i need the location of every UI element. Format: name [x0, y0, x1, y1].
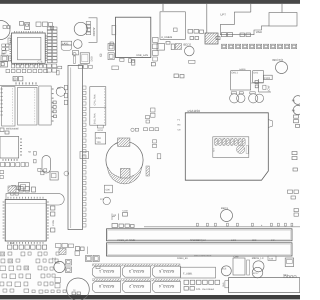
- labels left of socket: [178, 119, 182, 132]
- svg-text:C28: C28: [96, 137, 101, 140]
- resistor row left edge y172: [0, 171, 4, 179]
- bottom board edge bar: [0, 295, 300, 299]
- test points bottom: [72, 289, 80, 295]
- connector DIMM1: [107, 229, 293, 242]
- svg-text:AA009: AA009: [239, 68, 246, 71]
- svg-text:SATA3_4: SATA3_4: [159, 284, 174, 288]
- CPU socket uSA1150: [185, 109, 272, 180]
- resistor right of cap pairs: [263, 85, 266, 89]
- connector F_PANEL wide: [229, 278, 300, 293]
- capacitor BECO: [184, 44, 195, 56]
- svg-text:SYS2: SYS2: [97, 129, 103, 132]
- resistor stack right edge y120: [294, 115, 300, 127]
- hatched connector COM1: [205, 33, 218, 44]
- svg-text:USB_LAN: USB_LAN: [136, 54, 148, 57]
- svg-text:B1D: B1D: [271, 239, 276, 242]
- small caps y243 x55: [56, 244, 80, 256]
- svg-text:M25U6406E: M25U6406E: [6, 128, 19, 131]
- svg-text:uSA1150: uSA1150: [188, 109, 201, 113]
- svg-text:DDR3_B1: DDR3_B1: [177, 257, 188, 260]
- svg-text:SATA3_3: SATA3_3: [129, 269, 144, 273]
- VRM component cluster bottom left: [0, 252, 66, 293]
- connector SATA3_2: [123, 281, 151, 292]
- svg-text:EC5: EC5: [222, 268, 227, 271]
- svg-text:C78: C78: [38, 61, 43, 64]
- label PT5: [52, 258, 57, 261]
- svg-text:SATA3_2: SATA3_2: [129, 284, 144, 288]
- components right of U9: [51, 206, 56, 232]
- svg-text:F_USB1: F_USB1: [183, 273, 193, 276]
- connector DIMM vertical slot: [68, 66, 86, 230]
- battery holder BAT1: [106, 138, 143, 184]
- IC U1 Super I/O QFP: [10, 31, 48, 65]
- svg-text:PPP: PPP: [252, 239, 257, 242]
- svg-text:DA1: DA1: [254, 72, 259, 75]
- component box right edge: [285, 258, 294, 267]
- label M25 under flash: [0, 128, 19, 135]
- svg-text:CPU_FAN: CPU_FAN: [94, 94, 97, 105]
- connector SATA3_1: [93, 266, 121, 277]
- capacitor EC at left edge: [0, 21, 10, 40]
- usb header bottom: [181, 267, 216, 278]
- component E1 left of USB_LAN: [110, 25, 116, 45]
- IC U9 PCH QFP: [3, 197, 49, 244]
- svg-text:SATA3_5: SATA3_5: [159, 269, 174, 273]
- wire stub to VAD: [281, 3, 283, 12]
- wire stub to COM1: [206, 3, 208, 33]
- svg-text:C105: C105: [52, 220, 55, 226]
- hatched strip above SATA row1: [93, 264, 181, 266]
- capacitor C160: [123, 210, 129, 217]
- svg-text:10A 103MHZ: 10A 103MHZ: [202, 288, 215, 291]
- capacitor column right of U1: [47, 27, 58, 72]
- label MECH_L3: [252, 257, 264, 260]
- component X7: [19, 172, 59, 191]
- svg-text:P15: P15: [52, 258, 57, 261]
- connector SATA3_0: [93, 281, 121, 292]
- svg-text:C26: C26: [106, 189, 111, 192]
- component U37 left edge: [1, 53, 12, 62]
- svg-text:DDR3FREQ A1: DDR3FREQ A1: [190, 239, 207, 242]
- component cluster x185-220 y281: [184, 280, 220, 291]
- svg-text:LPT: LPT: [221, 12, 227, 16]
- capacitor row below U1: [6, 64, 47, 72]
- USB LAN connector stack: [116, 17, 151, 57]
- capacitor P6: [292, 96, 302, 105]
- capacitor pair above socket right: [249, 92, 264, 103]
- capacitor pair above socket left: [230, 92, 245, 103]
- svg-text:U37: U37: [1, 53, 6, 56]
- mosfet pair x66 y262: [66, 260, 72, 266]
- capacitor EN1: [56, 87, 65, 96]
- component row below U9: [8, 242, 47, 249]
- svg-text:AUDIO: AUDIO: [92, 28, 96, 38]
- label 175 box: [80, 152, 89, 159]
- hatched connector F_USB30: [175, 44, 181, 50]
- svg-text:A7A: A7A: [196, 288, 201, 291]
- svg-text:GND: GND: [222, 282, 225, 287]
- resistor column x53 y102: [53, 101, 57, 118]
- capacitor MECH circle: [253, 261, 264, 272]
- inductor LOW vertical: [259, 79, 272, 92]
- trace loop above U9: [6, 194, 64, 205]
- capacitor BEC1: [221, 207, 233, 222]
- components above U9: [8, 186, 36, 193]
- GND stub left of panel: [222, 281, 228, 288]
- capacitor EC5: [54, 261, 65, 272]
- connector CPU_FAN SYS_FAN header: [90, 87, 106, 133]
- component cluster above U1: [19, 22, 29, 30]
- capacitors x188-202 y30: [188, 30, 204, 34]
- components DAL2 C1C0: [251, 71, 272, 83]
- trace line above DIMM: [144, 226, 300, 228]
- component C26 below battery: [100, 185, 112, 204]
- inductor hatched x59 y248: [59, 249, 66, 255]
- scattered passives: [151, 33, 250, 78]
- resistor pair x145 y115: [146, 116, 150, 124]
- connector VAD: [256, 13, 297, 35]
- resistors near Y1: [34, 152, 47, 175]
- IC tall CH9: [233, 256, 245, 276]
- resistor x56 y71: [57, 52, 77, 75]
- IC U11 left edge: [0, 137, 32, 161]
- svg-text:VAD: VAD: [256, 30, 263, 34]
- hatched strip between SATA rows: [93, 279, 181, 281]
- small parts x168 y42: [157, 42, 175, 51]
- component C42 box: [268, 256, 276, 261]
- component left edge y62: [0, 62, 8, 68]
- capacitor EC6 big: [55, 278, 89, 300]
- svg-text:C160: C160: [123, 210, 129, 213]
- IC U5 dual flash block: [0, 82, 38, 126]
- svg-text:MECH_L3: MECH_L3: [252, 257, 264, 260]
- capacitors x108 y44: [100, 44, 114, 60]
- component row above DIMM: [112, 224, 134, 228]
- connector right of battery: [146, 166, 149, 176]
- pads left of vertical slot: [64, 85, 69, 176]
- component DAL1 box: [231, 68, 251, 90]
- component bracket left of SATA: [86, 247, 101, 269]
- svg-text:CH9: CH9: [234, 256, 239, 259]
- audio jack capacitor EC2: [74, 40, 83, 49]
- capacitor BECTO: [273, 58, 288, 74]
- svg-text:C1C0: C1C0: [264, 77, 271, 80]
- capacitor small x12 y186: [12, 186, 21, 190]
- resistor pair x190 y37: [190, 37, 199, 40]
- resistors right edge y190: [288, 190, 299, 216]
- svg-text:EC5: EC5: [55, 262, 60, 265]
- component C28: [95, 133, 106, 145]
- component column x152 y38: [153, 28, 178, 61]
- svg-text:EN: EN: [57, 87, 61, 90]
- capacitor row top right: [222, 44, 297, 48]
- capacitor small x58 y66: [58, 66, 62, 69]
- inductor LAX1: [61, 41, 71, 50]
- parts row above battery: [131, 128, 161, 159]
- svg-text:DDR3_A1 DIMM: DDR3_A1 DIMM: [118, 239, 136, 242]
- ticks row right y276: [283, 273, 296, 277]
- connector DIMM2: [107, 243, 293, 260]
- connector SATA3_5: [153, 266, 181, 277]
- front audio header DIGI: [80, 53, 93, 64]
- connector SATA3_4: [153, 281, 181, 292]
- testpoints x10 y192: [11, 192, 19, 195]
- connector SATA3_3: [123, 266, 151, 277]
- resistors right edge y152: [292, 152, 297, 172]
- svg-text:64PF: 64PF: [231, 239, 237, 242]
- audio jack capacitor EC1: [74, 22, 87, 35]
- component row below U11: [1, 162, 29, 166]
- audio connector bracket: [89, 18, 98, 43]
- resistor pair x152 y140: [153, 140, 157, 148]
- component U4 bracket: [112, 214, 119, 221]
- IC U6 right of flash: [39, 86, 54, 125]
- svg-text:EC17: EC17: [253, 272, 259, 275]
- pin row below USB_LAN: [120, 58, 135, 65]
- capacitor EC5 bottom: [221, 266, 231, 276]
- svg-text:B10: B10: [10, 242, 15, 245]
- jumper x222 y33: [222, 33, 233, 37]
- svg-text:SATA3_1: SATA3_1: [99, 269, 114, 273]
- top board edge bar: [0, 0, 300, 4]
- svg-text:C42: C42: [269, 257, 274, 260]
- capacitor P8: [292, 105, 303, 114]
- box pair left edge y108: [151, 108, 156, 117]
- svg-text:SATA3_0: SATA3_0: [99, 284, 114, 288]
- narrow rect x247: [247, 260, 250, 275]
- resistor below BECO: [189, 60, 195, 63]
- label row y254: [194, 254, 212, 257]
- capacitor stack right of audio jack: [73, 22, 93, 69]
- components above flash block: [13, 77, 23, 81]
- capacitor EC17: [252, 267, 263, 278]
- USB4 stack outline: [160, 12, 185, 40]
- svg-text:DIGI: DIGI: [91, 56, 94, 61]
- wire stub to LPT: [250, 3, 252, 12]
- small parts below USB_LAN pins: [112, 66, 118, 70]
- resistors left of U1: [2, 26, 10, 54]
- svg-text:A_USB46: A_USB46: [161, 36, 173, 39]
- crystal Y1: [42, 156, 51, 174]
- resistors x255 y81: [255, 81, 258, 88]
- CPU socket centre plate: [213, 137, 249, 158]
- svg-text:SYS_FAN: SYS_FAN: [94, 113, 97, 124]
- pin ticks above trace: [197, 223, 293, 227]
- resistor pair x76 y247: [76, 247, 85, 251]
- wire stub to USB4: [162, 3, 164, 11]
- capacitor row right of U1 top: [36, 22, 54, 30]
- connector LPT staircase outline: [220, 12, 269, 35]
- mosfet pair x66 y270: [66, 267, 72, 273]
- svg-text:DAL1: DAL1: [232, 72, 239, 75]
- svg-text:LOW: LOW: [267, 85, 271, 92]
- svg-text:MECH SPEAKER: MECH SPEAKER: [194, 254, 212, 257]
